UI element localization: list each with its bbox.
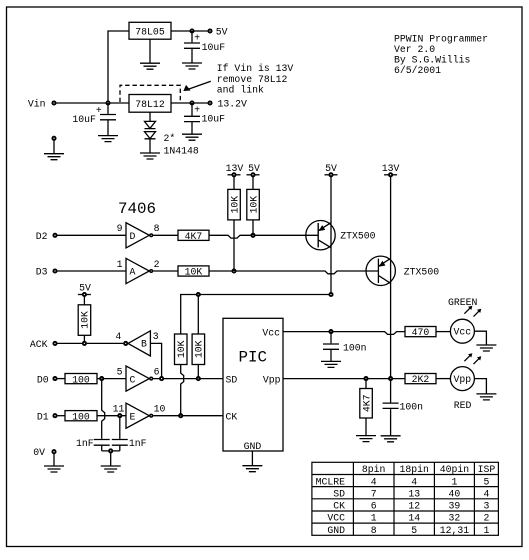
svg-text:PPWIN Programmer: PPWIN Programmer bbox=[394, 33, 488, 44]
terminal chassis gnd left bbox=[52, 137, 55, 140]
svg-text:10uF: 10uF bbox=[72, 114, 96, 125]
wire R8 to SD bbox=[197, 365, 199, 379]
capacitor C3 10uF (13.2V) bbox=[184, 103, 200, 134]
svg-text:GND: GND bbox=[327, 525, 345, 536]
ground under 1nF caps bbox=[101, 466, 121, 472]
svg-text:and link: and link bbox=[217, 84, 264, 95]
wire 0V to ground bbox=[53, 454, 55, 466]
resistor R10 470 bbox=[405, 327, 436, 337]
wire 78L12 output bbox=[171, 102, 210, 104]
svg-text:10K: 10K bbox=[229, 196, 240, 214]
svg-text:ZTX500: ZTX500 bbox=[404, 266, 439, 277]
junction R8 pullup on SD bbox=[197, 377, 200, 380]
regulator U2 78L12 bbox=[129, 95, 171, 113]
svg-text:3: 3 bbox=[483, 501, 489, 512]
svg-text:5V: 5V bbox=[216, 26, 228, 37]
junction C4 tap bbox=[100, 377, 103, 380]
svg-text:+: + bbox=[194, 33, 200, 44]
svg-text:100: 100 bbox=[72, 411, 90, 422]
svg-text:5: 5 bbox=[483, 476, 489, 487]
svg-text:+: + bbox=[194, 104, 200, 115]
svg-text:Vin: Vin bbox=[28, 99, 46, 110]
svg-text:CK: CK bbox=[226, 411, 238, 422]
svg-text:32: 32 bbox=[449, 513, 461, 524]
ground LED1 bbox=[476, 345, 496, 351]
svg-text:470: 470 bbox=[412, 327, 430, 338]
resistor R6 100 bbox=[65, 374, 97, 384]
bubble gate C bbox=[150, 377, 153, 380]
svg-text:2: 2 bbox=[483, 513, 489, 524]
gate U3C 7406 bbox=[126, 366, 149, 391]
gate U3E 7406 bbox=[126, 403, 149, 428]
svg-text:100n: 100n bbox=[343, 342, 367, 353]
ground under 78L05 bbox=[140, 63, 160, 69]
svg-text:MCLRE: MCLRE bbox=[316, 476, 346, 487]
diode D2 1N4148 bbox=[145, 132, 156, 139]
terminal D0 bbox=[53, 377, 56, 380]
wire LED1 to ground bbox=[474, 331, 486, 345]
wire gate A out bbox=[153, 270, 178, 272]
resistor R11 4K7 vertical bbox=[360, 389, 373, 419]
junction gate B tie bbox=[160, 377, 163, 380]
svg-text:4: 4 bbox=[371, 476, 377, 487]
junction R11 tap bbox=[364, 377, 367, 380]
LED2 arrows bbox=[464, 356, 479, 365]
svg-text:10K: 10K bbox=[185, 267, 203, 278]
junction Q2 collector to Vpp bbox=[389, 377, 392, 380]
svg-text:remove 78L12: remove 78L12 bbox=[217, 74, 288, 85]
terminal D1 bbox=[53, 414, 56, 417]
svg-text:6: 6 bbox=[371, 501, 377, 512]
svg-text:SD: SD bbox=[226, 374, 238, 385]
annotation arrow bbox=[187, 81, 211, 90]
wire 78L05 output bbox=[171, 30, 210, 32]
svg-text:CK: CK bbox=[333, 501, 345, 512]
svg-text:100n: 100n bbox=[400, 402, 424, 413]
svg-text:1: 1 bbox=[451, 476, 457, 487]
svg-text:B: B bbox=[141, 339, 147, 350]
junction 13.2V out bbox=[190, 101, 193, 104]
svg-text:5: 5 bbox=[411, 525, 417, 536]
svg-text:RED: RED bbox=[454, 400, 472, 411]
svg-text:8: 8 bbox=[371, 525, 377, 536]
svg-text:8: 8 bbox=[154, 223, 160, 234]
svg-text:78L12: 78L12 bbox=[135, 99, 165, 110]
resistor R8 10K vertical bbox=[192, 334, 205, 365]
wire R7 to gate E (hop at 101.7) bbox=[97, 415, 126, 417]
svg-text:4: 4 bbox=[483, 488, 489, 499]
bubble gate E bbox=[150, 414, 153, 417]
svg-text:GND: GND bbox=[244, 441, 262, 452]
svg-text:2*: 2* bbox=[164, 133, 176, 144]
wire 5V to R5 bbox=[83, 297, 85, 305]
junction 5V out bbox=[190, 29, 193, 32]
svg-text:1: 1 bbox=[371, 513, 377, 524]
svg-text:1nF: 1nF bbox=[76, 438, 94, 449]
wire D3 to gate bbox=[57, 270, 126, 272]
wire R9 to CK (jog at SD) bbox=[181, 365, 184, 416]
svg-text:7: 7 bbox=[371, 488, 377, 499]
svg-text:13V: 13V bbox=[226, 163, 244, 174]
wire 13V to R3 bbox=[233, 177, 235, 190]
wire ACK to gate B bbox=[57, 342, 123, 344]
svg-text:5V: 5V bbox=[79, 283, 91, 294]
ground under C7 bbox=[381, 436, 401, 442]
terminal ACK bbox=[53, 342, 56, 345]
svg-text:40: 40 bbox=[449, 488, 461, 499]
wire R11 to ground bbox=[365, 418, 367, 436]
bubble gate D bbox=[150, 234, 153, 237]
terminal 5V bbox=[208, 29, 211, 32]
svg-text:ISP: ISP bbox=[478, 464, 496, 475]
gate U3D 7406 bbox=[126, 223, 149, 248]
svg-text:13: 13 bbox=[408, 488, 420, 499]
capacitor C2 10uF (Vin) bbox=[100, 103, 116, 136]
wire 78L05 gnd tab bbox=[149, 39, 151, 63]
resistor R5 10K vertical bbox=[78, 305, 91, 336]
wire 470 to LED1 bbox=[436, 331, 450, 333]
terminal 13.2V bbox=[208, 101, 211, 104]
svg-text:C: C bbox=[130, 374, 136, 385]
svg-text:If Vin is 13V: If Vin is 13V bbox=[217, 63, 294, 74]
wire C4 drop (jog at CK) bbox=[102, 379, 105, 439]
svg-text:D0: D0 bbox=[37, 374, 49, 385]
wire Q2 node to C7 bbox=[390, 379, 392, 403]
pin table grid bbox=[312, 462, 499, 535]
svg-text:4: 4 bbox=[115, 331, 121, 342]
ground under C6 bbox=[321, 361, 341, 367]
svg-text:By S.G.Willis: By S.G.Willis bbox=[394, 55, 471, 66]
gate U3B 7406 (mirrored) bbox=[128, 331, 150, 356]
svg-text:10uF: 10uF bbox=[202, 113, 226, 124]
terminal 5V rail mid bbox=[247, 174, 260, 176]
svg-text:10K: 10K bbox=[176, 340, 187, 358]
capacitor C5 1nF bbox=[112, 440, 128, 451]
terminal Vin bbox=[52, 101, 55, 104]
capacitor C6 100n bbox=[323, 344, 339, 361]
wire D2 to gate bbox=[57, 234, 126, 236]
resistor R3 10K vertical bbox=[228, 189, 241, 220]
terminal D2 bbox=[53, 234, 56, 237]
svg-text:12: 12 bbox=[408, 501, 420, 512]
svg-text:D1: D1 bbox=[37, 411, 49, 422]
diode D1 1N4148 bbox=[145, 121, 156, 128]
svg-text:7406: 7406 bbox=[118, 200, 156, 218]
svg-text:Ver 2.0: Ver 2.0 bbox=[394, 44, 435, 55]
wire R8 top lead bbox=[197, 295, 199, 335]
svg-text:A: A bbox=[130, 267, 136, 278]
wire CK line to PIC bbox=[153, 415, 223, 417]
svg-text:40pin: 40pin bbox=[440, 464, 470, 475]
bubble gate A bbox=[150, 270, 153, 273]
svg-text:D2: D2 bbox=[36, 231, 48, 242]
svg-text:1N4148: 1N4148 bbox=[164, 145, 199, 156]
transistor Q1 ZTX500 bbox=[306, 221, 335, 250]
junction Vin node bbox=[106, 101, 109, 104]
regulator U1 78L05 bbox=[129, 22, 171, 39]
capacitor C4 1nF bbox=[94, 440, 110, 451]
ground under C1 bbox=[182, 63, 202, 69]
junction 13V pullup on D3 line bbox=[232, 269, 235, 272]
svg-text:VCC: VCC bbox=[327, 513, 345, 524]
svg-text:3: 3 bbox=[153, 331, 159, 342]
svg-text:5V: 5V bbox=[325, 163, 337, 174]
resistor R4 10K vertical bbox=[247, 189, 259, 220]
wire 13V rail through Q2 bbox=[390, 177, 392, 379]
dashed link box bbox=[120, 85, 180, 102]
wire R11 top lead bbox=[365, 379, 367, 389]
svg-text:8pin: 8pin bbox=[362, 464, 386, 475]
terminal 0V bbox=[52, 450, 55, 453]
svg-text:D3: D3 bbox=[36, 267, 48, 278]
wire terminal to ground bbox=[53, 140, 55, 153]
svg-text:10K: 10K bbox=[194, 340, 205, 358]
capacitor C7 100n bbox=[383, 403, 399, 436]
svg-text:4K7: 4K7 bbox=[361, 394, 372, 412]
ground under C2 bbox=[98, 136, 118, 142]
junction C5 tap bbox=[118, 414, 121, 417]
svg-text:9: 9 bbox=[117, 223, 123, 234]
svg-text:D: D bbox=[130, 231, 136, 242]
bubble gate B bbox=[124, 342, 127, 345]
junction ACK pullup bbox=[83, 342, 86, 345]
wire diodes to ground bbox=[149, 139, 151, 153]
resistor R9 10K vertical bbox=[175, 334, 188, 365]
svg-text:Vpp: Vpp bbox=[454, 374, 472, 385]
gate U3A 7406 bbox=[126, 258, 149, 283]
wire 10K to Q2 base (hop at 331) bbox=[209, 271, 378, 274]
resistor R2 10K bbox=[178, 266, 209, 276]
wire D0 to R6 bbox=[57, 378, 65, 380]
terminal 5V Q1 rail bbox=[325, 174, 338, 176]
wire pullup rail bbox=[181, 295, 331, 335]
svg-text:1: 1 bbox=[117, 259, 123, 270]
svg-text:12,31: 12,31 bbox=[440, 525, 470, 536]
svg-text:6: 6 bbox=[154, 367, 160, 378]
junction Q1 collector to Vcc bbox=[329, 330, 332, 333]
ground under diodes bbox=[140, 153, 160, 159]
capacitor C1 10uF (5V) bbox=[184, 31, 200, 63]
svg-text:ZTX500: ZTX500 bbox=[340, 231, 375, 242]
wire gate D out bbox=[153, 234, 178, 236]
wire 78L05 input bbox=[108, 31, 129, 103]
svg-text:100: 100 bbox=[72, 374, 90, 385]
transistor Q2 ZTX500 bbox=[366, 256, 395, 285]
svg-text:1: 1 bbox=[483, 525, 489, 536]
wire R4 to D2 line bbox=[252, 220, 254, 235]
wire cap bus to ground bbox=[102, 451, 120, 466]
wire 2K2 to LED2 bbox=[436, 378, 450, 380]
svg-text:13V: 13V bbox=[382, 163, 400, 174]
wire 5V to R4 bbox=[252, 177, 254, 190]
svg-text:10: 10 bbox=[154, 404, 166, 415]
svg-text:1nF: 1nF bbox=[129, 438, 147, 449]
ground under R11 bbox=[356, 436, 376, 442]
svg-text:Vpp: Vpp bbox=[263, 374, 281, 385]
LED LED2 red bbox=[450, 367, 474, 391]
wire SD line to PIC bbox=[153, 378, 223, 380]
wire R6 to gate C bbox=[97, 378, 126, 380]
wire R3 to D3 line bbox=[233, 220, 235, 271]
svg-text:SD: SD bbox=[333, 488, 345, 499]
svg-text:+: + bbox=[96, 105, 102, 116]
wire Q1 node to C6 bbox=[330, 332, 332, 344]
svg-text:6/5/2001: 6/5/2001 bbox=[394, 65, 441, 76]
svg-text:5V: 5V bbox=[248, 163, 260, 174]
wire LED2 to ground bbox=[474, 379, 486, 394]
ground under 0V bbox=[44, 466, 64, 472]
svg-text:13.2V: 13.2V bbox=[218, 99, 248, 110]
terminal 13V rail bbox=[228, 174, 241, 176]
svg-text:5: 5 bbox=[117, 367, 123, 378]
svg-text:78L05: 78L05 bbox=[135, 26, 165, 37]
terminal D3 bbox=[53, 269, 56, 272]
IC PIC bbox=[223, 318, 283, 451]
svg-text:GREEN: GREEN bbox=[448, 297, 478, 308]
resistor R1 4K7 bbox=[178, 230, 209, 240]
svg-text:2: 2 bbox=[154, 259, 160, 270]
wire Vin to 78L12 bbox=[56, 102, 129, 104]
svg-text:Vcc: Vcc bbox=[262, 327, 280, 338]
ground LED2 bbox=[476, 394, 496, 400]
svg-text:39: 39 bbox=[449, 501, 461, 512]
junction R8 top bbox=[197, 293, 200, 296]
svg-text:4K7: 4K7 bbox=[185, 231, 203, 242]
ground left bbox=[44, 154, 64, 160]
wire 4K7 to Q1 base (hop at 234) bbox=[209, 235, 318, 238]
svg-text:18pin: 18pin bbox=[399, 464, 429, 475]
wire PIC GND pin bbox=[251, 451, 253, 466]
svg-text:2K2: 2K2 bbox=[412, 374, 430, 385]
svg-text:Vcc: Vcc bbox=[454, 327, 472, 338]
wire Vpp line bbox=[283, 378, 405, 380]
svg-text:10K: 10K bbox=[248, 196, 259, 214]
svg-text:ACK: ACK bbox=[30, 339, 48, 350]
junction cap bus bbox=[109, 449, 112, 452]
terminal 13V Q2 rail bbox=[384, 174, 397, 176]
wire gate B to SD node bbox=[150, 343, 161, 378]
svg-text:11: 11 bbox=[113, 404, 125, 415]
ground under PIC bbox=[242, 466, 262, 472]
svg-text:14: 14 bbox=[408, 513, 420, 524]
wire 5V rail through Q1 bbox=[330, 177, 332, 295]
wire C5 drop bbox=[119, 416, 121, 439]
junction R9 pulldown on CK bbox=[179, 414, 182, 417]
svg-text:4: 4 bbox=[411, 476, 417, 487]
wire R5 to ACK line bbox=[83, 335, 85, 343]
junction 5V pullup on D2 line bbox=[251, 234, 254, 237]
svg-text:10K: 10K bbox=[80, 311, 91, 329]
wire 78L12 to diodes bbox=[149, 112, 151, 121]
LED LED1 green bbox=[450, 319, 474, 343]
resistor R12 2K2 bbox=[405, 374, 436, 384]
svg-text:10uF: 10uF bbox=[202, 42, 226, 53]
resistor R7 100 bbox=[65, 411, 97, 421]
wire D1 to R7 bbox=[57, 415, 65, 417]
terminal 5V ACK bbox=[78, 294, 91, 296]
svg-text:E: E bbox=[130, 411, 136, 422]
wire Vcc line (hop at 390.6) bbox=[283, 332, 405, 335]
LED1 arrows bbox=[464, 308, 479, 317]
svg-text:0V: 0V bbox=[33, 447, 45, 458]
junction rail to Q1 collector bbox=[329, 293, 332, 296]
svg-text:PIC: PIC bbox=[239, 348, 267, 366]
ground under C3 bbox=[182, 134, 202, 140]
